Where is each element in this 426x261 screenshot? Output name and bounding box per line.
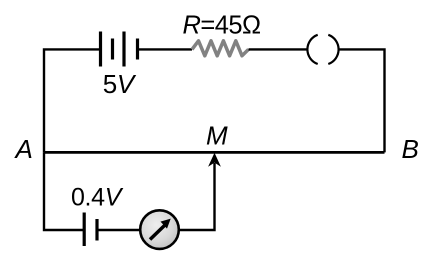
galvanometer G needle <box>150 226 165 240</box>
wire: galvanometer to right side of probe loop, up toward M <box>180 163 215 230</box>
svg-text:5V: 5V <box>103 69 137 99</box>
resistor R zigzag <box>192 41 249 56</box>
battery V1: short plate 1 <box>111 39 114 60</box>
galvanometer G body <box>140 210 179 249</box>
svg-text:B: B <box>402 134 419 164</box>
battery V2 (0.4V): short plate <box>95 219 98 241</box>
arrow head: probe pointing up at node M <box>208 153 221 167</box>
lamp / unknown element ( ) : left arc <box>307 35 317 64</box>
wire: resistor R to lamp <box>249 48 308 50</box>
battery V1: short plate 2 <box>136 39 139 60</box>
wire: left vertical lower + bottom-left segment to battery V2 <box>44 152 83 230</box>
battery V1: tall plate 2 <box>122 32 125 67</box>
wire: battery V2 to galvanometer <box>99 229 141 231</box>
lamp / unknown element ( ) : right arc <box>328 35 338 64</box>
galvanometer G needle head <box>161 219 171 229</box>
wire: battery V1 to resistor R <box>139 48 192 50</box>
svg-text:A: A <box>14 134 33 164</box>
battery V2 (0.4V): tall plate <box>83 213 86 247</box>
wire: left vertical + top-left segment to battery <box>44 49 99 152</box>
wire: lamp to right vertical down to node B line <box>339 49 385 152</box>
wire: A-B horizontal rail <box>44 151 385 154</box>
battery V1 (5V), 2 cells: tall plate 1 <box>99 32 102 67</box>
svg-text:M: M <box>206 120 228 150</box>
svg-text:0.4V: 0.4V <box>71 183 124 211</box>
svg-text:R=45Ω: R=45Ω <box>183 11 261 39</box>
